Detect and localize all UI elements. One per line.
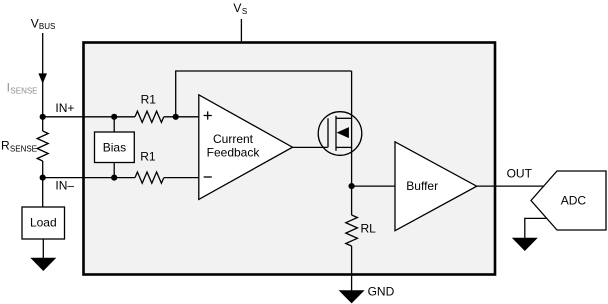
ground (ADC) — [512, 238, 538, 251]
op-amp U1 Current Feedback — [199, 95, 293, 200]
svg-text:Buffer: Buffer — [406, 179, 438, 193]
load box — [22, 207, 65, 239]
svg-text:Feedback: Feedback — [207, 145, 261, 159]
svg-text:SENSE: SENSE — [10, 144, 37, 153]
IC package outline — [84, 43, 496, 275]
label IN- — [55, 179, 74, 193]
label ISENSE — [7, 81, 38, 96]
wire Bias to IN+ line — [113, 117, 115, 132]
svg-text:R: R — [1, 138, 10, 152]
value label RSENSE — [1, 138, 37, 153]
wire op-amp output to FET gate — [293, 146, 328, 148]
wire ADC to ground — [525, 218, 547, 238]
label IN+ — [55, 101, 74, 115]
ground GND (bottom) — [339, 290, 365, 303]
svg-text:S: S — [242, 7, 247, 16]
resistor RL — [346, 186, 358, 290]
resistor R1 (bottom) — [135, 172, 164, 183]
node bias top junction — [111, 114, 117, 120]
svg-text:BUS: BUS — [39, 22, 55, 31]
value label R1 (top) — [141, 92, 157, 106]
wire Bias to IN- line — [113, 163, 115, 178]
node op-amp + input junction — [173, 114, 179, 120]
value label R1 (bottom) — [140, 149, 156, 163]
wire IN- node to Load — [42, 178, 44, 207]
transistor Q1 (NMOS pass FET) — [318, 71, 362, 186]
buffer amplifier — [395, 142, 477, 231]
svg-text:Current: Current — [213, 132, 254, 146]
node IN- rail junction — [40, 175, 46, 181]
net GND label — [368, 284, 395, 298]
ground (below Load) — [30, 258, 56, 271]
value label RL — [361, 222, 377, 236]
bias block — [95, 132, 135, 163]
wire IN+ line — [43, 116, 199, 118]
svg-text:V: V — [31, 16, 39, 30]
wire feedback (+ node up and over to FET drain) — [176, 71, 352, 117]
resistor R1 (top) — [135, 111, 164, 122]
svg-text:R1: R1 — [140, 149, 156, 163]
wire source node to buffer — [352, 185, 395, 187]
svg-text:GND: GND — [368, 284, 395, 298]
svg-text:ADC: ADC — [561, 194, 587, 208]
current direction arrow ISENSE — [38, 73, 47, 83]
net OUT label — [507, 166, 533, 180]
net VBUS label — [31, 16, 56, 31]
svg-text:Bias: Bias — [103, 141, 126, 155]
ADC block — [531, 171, 606, 230]
wire VBUS rail — [42, 33, 44, 117]
svg-text:SENSE: SENSE — [10, 86, 37, 95]
svg-text:V: V — [233, 1, 241, 15]
svg-text:Load: Load — [30, 216, 57, 230]
svg-text:IN–: IN– — [55, 179, 74, 193]
node bias bottom junction — [111, 175, 117, 181]
resistor RSENSE — [37, 117, 48, 178]
node source junction — [349, 183, 355, 189]
svg-text:RL: RL — [361, 222, 377, 236]
net VS label — [233, 1, 247, 16]
wire OUT — [477, 185, 544, 187]
wire VS supply stub — [240, 19, 242, 42]
wire Load to ground — [42, 239, 44, 259]
svg-text:R1: R1 — [141, 92, 157, 106]
node IN+ rail junction — [40, 114, 46, 120]
svg-text:IN+: IN+ — [55, 101, 74, 115]
wire IN- line — [43, 177, 199, 179]
svg-text:OUT: OUT — [507, 166, 533, 180]
